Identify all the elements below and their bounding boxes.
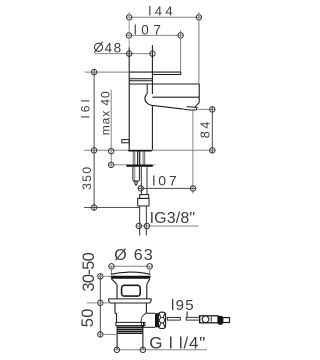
rod tube below washer [133,167,140,181]
spout bottom edge line [152,96,199,98]
pull rod segment 1 [167,317,180,320]
overflow slot [122,285,141,296]
joint dark band [155,313,158,327]
pull rod segment 2 [186,317,200,320]
extension aerator axis [192,111,194,194]
dim 84 [198,107,216,154]
rod coupler [200,316,218,323]
hose fitting [140,195,149,199]
svg-text:max 40: max 40 [99,91,113,135]
dim max40 vertical [109,90,114,168]
leader G 1 1/4 [114,347,207,352]
dim 30-50 / 50 vertical [87,274,117,338]
extension line lever tip x=180.6 [180,30,182,72]
extension line spout tip x=198.9 [198,12,200,84]
outlet tube [141,313,155,327]
dim 161-350 vertical [91,69,96,211]
leader 195 [186,312,188,318]
spout inner vertical [146,84,148,94]
thread flange [116,322,145,325]
svg-text:30-50: 30-50 [80,252,98,292]
lever bottom + tip [152,72,180,74]
spout nose chamfer [195,103,200,108]
svg-text:50: 50 [79,309,97,328]
thread block [117,326,143,335]
faucet body left edge [128,48,130,151]
rod pin tip [135,181,137,185]
svg-text:G l l/4": G l l/4" [149,334,205,353]
rod tube bottom [133,180,140,181]
label ø48 [94,42,103,53]
deck line right [152,149,216,151]
dim 107 lower [138,186,197,191]
mounting washer [126,165,152,167]
lever top line [85,71,181,73]
plug dome rim dark band [110,276,151,279]
extension line left x=129 [128,12,130,48]
rod clamp nut dark [218,316,223,325]
tailpipe [117,335,143,350]
deck bar under body [128,150,152,152]
faucet body right edge upper [151,45,153,94]
deck line left [84,149,128,151]
plug skirt [111,279,150,285]
svg-text:Ø 63: Ø 63 [114,247,153,264]
spout top edge [129,83,199,85]
svg-text:48: 48 [105,40,122,55]
deck bottom line [109,164,128,166]
hose below washer [141,167,147,195]
svg-text:350: 350 [80,167,94,190]
waste flange [109,299,152,303]
dim line 107 top [126,33,183,38]
rod end tip [223,318,230,323]
spout right edge [198,84,200,103]
svg-text:IG3/8": IG3/8" [150,210,196,227]
aerator nub [182,107,197,111]
joint x-nut [158,312,165,328]
supply pipes above washer [133,151,145,164]
threaded rod dark pair [138,151,140,164]
body seam lines [129,79,152,81]
waste body mid [115,303,146,322]
350 bottom line [84,207,140,209]
leader ø48 [95,51,155,56]
plug dome top [111,272,151,274]
dim Ø63 [109,264,153,274]
faucet body right edge lower [151,106,153,151]
hose nut [138,198,149,206]
dim line 144 [127,15,202,20]
waste body upper [117,285,147,299]
spout underside chin curve [145,94,182,109]
leader IG3/8 [136,223,199,228]
fixing nub [122,140,129,143]
hose lower [140,206,147,235]
